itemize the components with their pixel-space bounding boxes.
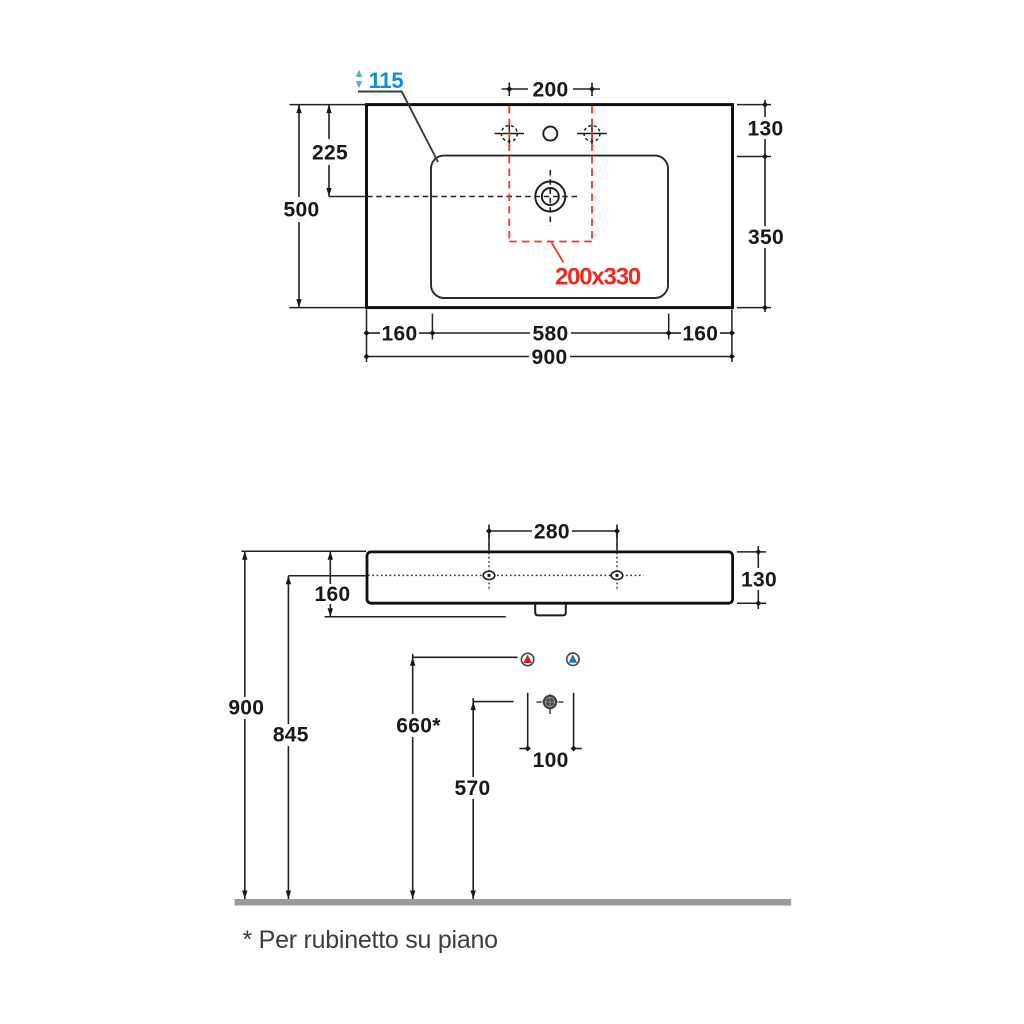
front view basin rectangle (367, 552, 733, 603)
dimension 280 (fixing holes) (489, 525, 617, 552)
top extension line (wall) (242, 550, 367, 552)
left extension line bottom (290, 307, 367, 309)
right extension lines (737, 105, 771, 308)
red dashed cutout zone 200x330 (509, 106, 592, 242)
cold water symbol (567, 653, 579, 665)
svg-text:350: 350 (748, 226, 784, 249)
svg-text:570: 570 (455, 777, 491, 800)
dimension 200 (tap holes spacing) (502, 83, 601, 97)
svg-text:280: 280 (534, 521, 570, 544)
svg-text:115: 115 (369, 68, 404, 93)
dimension 160 / 580 / 160 (bottom) (367, 332, 732, 334)
left extension line top (290, 104, 367, 106)
svg-text:130: 130 (741, 569, 777, 592)
svg-text:200: 200 (533, 79, 569, 102)
dimension 225 (left) (328, 105, 330, 197)
hot water symbol (521, 653, 533, 665)
extension line at fixing height (288, 575, 367, 577)
right wall fixing hole (611, 553, 623, 591)
leader line from 115 to bowl corner (358, 92, 438, 163)
svg-text:225: 225 (312, 142, 348, 165)
svg-text:160: 160 (382, 323, 418, 346)
dimension 130 (right top) (764, 100, 766, 157)
blue height icon (double arrow) (356, 70, 362, 89)
drain hole outer circle (535, 182, 565, 212)
left wall fixing hole (483, 553, 495, 591)
reference line 160 below (325, 616, 506, 618)
floor line (235, 899, 792, 906)
svg-text:130: 130 (748, 118, 784, 141)
centerline solid extension left (329, 196, 367, 198)
dimension 350 (right) (764, 157, 766, 313)
svg-text:200x330: 200x330 (555, 264, 641, 291)
waste pipe symbol (537, 694, 564, 715)
dimension 160 (front left) (329, 551, 331, 616)
svg-text:580: 580 (533, 323, 569, 346)
drain hole vertical dashed centerline (549, 170, 551, 226)
dotted centerline (wall fixing line) (368, 574, 644, 576)
dashed horizontal centerline through drain (367, 196, 580, 198)
drain hole inner circle (542, 188, 559, 205)
dimension 660* (412, 654, 414, 899)
dimension 900 (floor height) (244, 551, 246, 899)
dimension 100 (supply spacing) (520, 693, 582, 749)
svg-text:660*: 660* (396, 715, 441, 738)
svg-text:845: 845 (273, 724, 309, 747)
svg-text:160: 160 (315, 583, 351, 606)
right tap hole crosshair (577, 124, 607, 144)
dimension 570 (472, 698, 474, 899)
red leader line (552, 243, 564, 263)
dimension 130 (front right) (757, 546, 759, 609)
drain outlet stub (535, 603, 566, 615)
svg-text:900: 900 (228, 696, 264, 719)
bottom extension lines (367, 310, 732, 363)
svg-text:500: 500 (284, 199, 320, 222)
svg-text:900: 900 (532, 346, 568, 369)
reference line 660 (413, 656, 518, 658)
svg-text:* Per rubinetto su piano: * Per rubinetto su piano (243, 926, 498, 954)
dimension 900 (bottom) (367, 356, 732, 358)
inner basin bowl rounded rectangle (431, 156, 668, 298)
svg-text:100: 100 (533, 749, 569, 772)
dimension 500 (left) (298, 105, 300, 308)
reference line 570 (473, 701, 513, 703)
outer basin rectangle (plan view 900x500) (367, 105, 733, 308)
dimension 845 (287, 576, 289, 899)
left tap hole crosshair (495, 124, 525, 144)
right extension lines front (737, 552, 766, 603)
svg-text:160: 160 (682, 323, 718, 346)
overflow hole circle (543, 127, 557, 141)
